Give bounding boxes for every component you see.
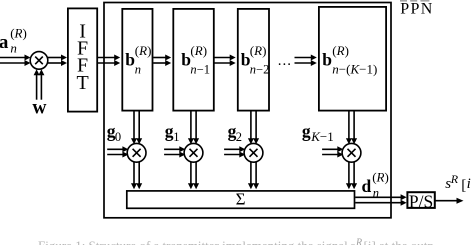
svg-text:n−1: n−1 <box>190 63 210 77</box>
svg-text:R: R <box>355 237 362 245</box>
svg-text:K−1: K−1 <box>310 129 334 144</box>
svg-text:n: n <box>10 40 17 55</box>
svg-text:i: i <box>467 176 471 192</box>
svg-text:1: 1 <box>173 130 179 144</box>
svg-text:Σ: Σ <box>236 189 246 208</box>
svg-text:Figure 1: Structure of a trans: Figure 1: Structure of a transmitter imp… <box>38 238 348 245</box>
svg-text:(R): (R) <box>190 43 207 58</box>
svg-text:(R): (R) <box>10 25 27 40</box>
svg-text:T: T <box>76 72 88 94</box>
svg-text:R: R <box>450 172 459 186</box>
svg-text:n−(K−1): n−(K−1) <box>332 62 377 77</box>
svg-text:s: s <box>350 238 355 245</box>
svg-text:n−2: n−2 <box>250 63 270 77</box>
svg-text:PPN: PPN <box>400 1 433 18</box>
svg-text:(R): (R) <box>372 169 389 184</box>
svg-text:(R): (R) <box>332 43 349 58</box>
svg-text:2: 2 <box>236 130 242 144</box>
svg-text:[i] at the outp: [i] at the outp <box>364 238 434 245</box>
svg-text:...: ... <box>278 53 292 69</box>
svg-text:b: b <box>125 50 135 70</box>
svg-text:d: d <box>362 176 372 196</box>
svg-text:(R): (R) <box>135 43 152 58</box>
svg-text:g: g <box>302 121 311 141</box>
svg-text:b: b <box>322 50 332 70</box>
svg-text:w: w <box>32 98 46 119</box>
svg-text:n: n <box>373 186 379 200</box>
svg-text:n: n <box>135 63 141 77</box>
svg-text:(R): (R) <box>250 43 267 58</box>
svg-text:0: 0 <box>115 130 121 144</box>
svg-text:[: [ <box>461 177 466 193</box>
svg-text:P/S: P/S <box>409 191 433 211</box>
svg-text:a: a <box>0 32 9 53</box>
